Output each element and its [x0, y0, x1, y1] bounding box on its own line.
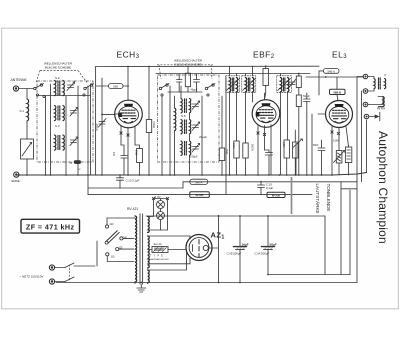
svg-text:S.5: S.5 [181, 114, 186, 118]
resistor R1 [146, 120, 151, 133]
wire R8 [294, 130, 296, 142]
wire rect heater bottom [147, 283, 149, 284]
terminal out 2 [363, 89, 368, 94]
wire antenna coil bottom [26, 121, 28, 139]
switch mains lower [55, 277, 74, 282]
switch S2a [159, 84, 169, 97]
junction dots EBF2 [229, 65, 297, 182]
svg-text:~ NETZ 220/110V: ~ NETZ 220/110V [20, 275, 44, 279]
coil L8 pair [181, 141, 191, 155]
svg-text:RV 404: RV 404 [377, 108, 386, 111]
wire HT bottom to AZ1 [148, 258, 190, 264]
wire lamp loop [148, 199, 168, 231]
capacitor C19 trimmer [289, 79, 296, 88]
switch S1a [34, 84, 46, 98]
wire col 102 [101, 78, 103, 175]
wire el3 lower link [341, 188, 357, 190]
wire antenna coil top [26, 89, 28, 100]
wire terminal4 drop [366, 120, 368, 172]
dial lamp 2 [157, 212, 165, 220]
voltage selector contacts [105, 225, 123, 256]
coil L4 pair [55, 135, 65, 150]
resistor R3 [219, 148, 224, 161]
wire C6 bottom [123, 158, 125, 175]
svg-text:ERDE: ERDE [12, 179, 20, 183]
transformer secondary rectifier heater winding [148, 270, 150, 283]
wire EL3 pins [331, 127, 333, 176]
wire R4 bottom [265, 86, 266, 100]
wire EL3 grid left [318, 113, 326, 115]
svg-text:Autophon Champion: Autophon Champion [376, 131, 390, 244]
capacitor C18 osc [177, 74, 183, 92]
svg-text:588·B: 588·B [333, 91, 341, 95]
terminal mains 2 [49, 279, 54, 284]
svg-text:W-531: W-531 [195, 193, 204, 197]
svg-text:0,1µF: 0,1µF [266, 186, 273, 190]
wire ECH3 top cap [127, 67, 129, 100]
svg-text:110: 110 [111, 256, 115, 259]
wire osc col 190 bottom [189, 156, 191, 176]
svg-text:Sen·4A: Sen·4A [154, 243, 162, 246]
wire C6 top [121, 145, 124, 156]
resistor R8 [293, 142, 298, 158]
wire right tall [356, 77, 358, 283]
capacitor C16 electrolytic [262, 216, 275, 275]
wire osc col 202 [201, 96, 203, 175]
x mark heater tap a [152, 197, 154, 199]
wire bus B [183, 181, 357, 183]
wire antenna lead [19, 88, 34, 90]
svg-text:220: 220 [110, 223, 115, 226]
svg-text:T Y P E: T Y P E [150, 255, 164, 258]
svg-text:100: 100 [112, 152, 115, 157]
wire R1 bottom [148, 133, 150, 176]
heater x marks EL3 [331, 131, 340, 135]
capacitor C6 [121, 156, 127, 159]
wire R11 bottom [338, 163, 340, 175]
wire pot track [291, 177, 293, 214]
wire R9 [298, 74, 300, 77]
switch link dashed [69, 265, 71, 282]
potentiometer R11 [334, 151, 345, 164]
svg-text:BLECHE SCHEIBE: BLECHE SCHEIBE [45, 66, 71, 70]
svg-text:ZF = 471 kHz: ZF = 471 kHz [26, 223, 75, 232]
transformer primary winding [135, 216, 137, 282]
wire primary ends [134, 218, 136, 284]
transformer secondary HT winding [148, 236, 150, 268]
wire osc inner top [168, 91, 202, 93]
wire L5 top [174, 96, 176, 108]
junction dots EL3 [298, 73, 333, 176]
terminal mains 1 [49, 265, 54, 270]
svg-text:RV-421: RV-421 [127, 207, 138, 211]
terminal ERDE [14, 172, 19, 177]
wire selector feed [96, 241, 98, 266]
wire right second vertical [361, 91, 363, 182]
wire grid box right [123, 85, 128, 87]
capacitor C20 block [70, 160, 82, 171]
wire osc col 190 link2 [189, 134, 191, 141]
capacitor C15 electrolytic [234, 216, 247, 283]
wire R3 top [221, 96, 223, 148]
tube ECH3 [115, 100, 143, 128]
wire loop vertical 2 [340, 182, 342, 275]
wire bus B step [88, 182, 183, 188]
capacitor C1 trimmer box [21, 139, 34, 159]
capacitor C17 osc [194, 74, 200, 92]
wire T4 bottom to t2 [368, 89, 374, 91]
junction dots ECH3 [101, 66, 150, 176]
svg-text:16µF: 16µF [242, 243, 249, 247]
svg-text:50µµF: 50µµF [95, 123, 99, 131]
label box 500 [109, 84, 124, 89]
wire fuse to AZ1 [168, 249, 186, 251]
terminal antenna [13, 86, 18, 91]
capacitor C2 trimmer [67, 82, 75, 91]
wire HT top to AZ1 [148, 236, 190, 239]
resistor R4 [263, 69, 268, 86]
switch mains upper [55, 263, 95, 268]
wire osc col 181 top [180, 86, 182, 99]
svg-text:W-530: W-530 [272, 193, 281, 197]
wire R5 bottom [236, 158, 238, 175]
wire box546 stub [319, 71, 324, 95]
terminal out 1 [363, 74, 368, 79]
wire R4 top [265, 66, 267, 68]
label box IF3 [267, 192, 285, 197]
wire R2 bottom [139, 163, 141, 176]
svg-text:0,1M: 0,1M [232, 143, 235, 148]
resistor R13 osc top [185, 73, 190, 87]
wire col 50 [50, 84, 52, 175]
wire HT center tap to fuse [148, 249, 152, 251]
capacitor C8 trimmer [192, 101, 200, 110]
x mark heater tap b [166, 197, 168, 199]
wire top bus B [156, 73, 310, 75]
svg-text:S.3: S.3 [55, 124, 60, 128]
wire ECH3 pin1 [120, 126, 122, 145]
junction grid [127, 85, 129, 87]
wire 588B stub up [336, 77, 338, 89]
resistor R9 [296, 76, 301, 88]
dashed pointer left switch group [36, 71, 40, 83]
speaker field coil [379, 97, 385, 107]
coil L5 osc left [175, 108, 176, 131]
wire osc col 162 [161, 96, 163, 175]
wire col 78 [77, 86, 79, 175]
tube EBF2 [252, 100, 280, 128]
label box IF1 [190, 179, 208, 184]
wire ground bus [16, 173, 367, 176]
transformer secondary heater winding [148, 217, 150, 233]
shield box oscillator (dash-dot) [158, 75, 220, 162]
label box 546A top [324, 69, 340, 74]
heater x marks ECH3 [120, 132, 129, 136]
wire col 90 [90, 86, 92, 175]
coil L1 antenna [27, 99, 29, 121]
svg-text:0,5M: 0,5M [282, 142, 285, 147]
wire R7 bottom [286, 158, 288, 175]
label box 588B [330, 89, 346, 94]
svg-text:33µµF: 33µµF [199, 135, 207, 139]
shield box left (dash-dot) [37, 81, 93, 162]
capacitor C9 trimmer [192, 122, 200, 131]
wire osc col 190 link [189, 113, 191, 120]
wire EBF2 pins [257, 125, 259, 176]
switch S1b [83, 84, 94, 97]
wire R13 top [187, 66, 189, 73]
wire ECH3 pin2 [127, 127, 129, 175]
resistor R2 [137, 149, 143, 163]
wire col 66 [65, 96, 67, 175]
label box IF2 [190, 192, 210, 198]
capacitor C3 trimmer [70, 108, 78, 117]
resistor R12 [345, 147, 351, 163]
potentiometer volume [293, 139, 302, 175]
svg-text:560: 560 [113, 84, 118, 88]
selector arm [105, 231, 119, 245]
svg-text:C.04 500µF: C.04 500µF [255, 251, 270, 255]
capacitor C13 [304, 93, 311, 175]
wire R1 top [148, 67, 150, 120]
wire field coil [368, 97, 383, 105]
junction ECH3 grid [101, 114, 103, 116]
wire bus C [88, 194, 312, 196]
wire switch common rail [38, 95, 91, 97]
svg-text:V: V [384, 73, 386, 77]
svg-text:50µµF: 50µµF [303, 95, 310, 98]
svg-text:LAUTSTÄRKE: LAUTSTÄRKE [315, 184, 321, 214]
wire col 312 [311, 114, 313, 175]
svg-text:TONBLENDE: TONBLENDE [326, 184, 331, 212]
wire top bus C [306, 76, 364, 78]
svg-text:S.2: S.2 [55, 76, 60, 80]
coil L3 pair [55, 106, 65, 121]
wire R13 bottom [187, 87, 189, 92]
junction dots left [26, 174, 89, 176]
svg-text:SCHAFFNER NR.64/4: SCHAFFNER NR.64/4 [147, 258, 170, 261]
IF transformer T1 [226, 76, 240, 93]
svg-text:0,05µF: 0,05µF [189, 155, 198, 159]
svg-text:40µµF: 40µµF [191, 89, 198, 92]
terminal out 4 [364, 114, 369, 119]
wire t1 stub [357, 76, 363, 78]
label box ZF = 471 kHz [21, 219, 80, 233]
wire osc col 170 [169, 86, 171, 175]
wire R12 bottom [348, 163, 350, 176]
wire B+ bus [146, 215, 325, 217]
switch S2b [205, 84, 215, 97]
wire R6 bottom [245, 158, 247, 175]
capacitor C7 0,1uF [117, 175, 124, 188]
wire L5 bottom [174, 131, 176, 175]
wire col 88 tall [87, 86, 89, 195]
wire R2 top [135, 145, 140, 149]
terminal out 3 [363, 102, 368, 107]
wire T-columns EBF2 [229, 92, 231, 175]
wire loop vertical 1 [324, 216, 326, 275]
pickup arrow [369, 112, 380, 120]
wire col 45 [45, 96, 47, 175]
svg-text:0,3M: 0,3M [333, 140, 338, 143]
junction dots osc [161, 174, 227, 176]
wire EBF2 top cap [264, 93, 266, 100]
wire AZ1 output [208, 216, 218, 248]
transformer core [140, 214, 143, 285]
wire bottom return [56, 282, 357, 284]
fuse box Schaffner [152, 247, 168, 253]
resistor R6 [243, 143, 248, 158]
wire loop vertical 3 [349, 190, 351, 275]
svg-text:50µF: 50µF [270, 243, 277, 247]
svg-text:0,3MΩ: 0,3MΩ [152, 121, 155, 128]
ground transformer core [137, 285, 146, 293]
svg-text:C.05 500µF: C.05 500µF [227, 251, 242, 255]
svg-text:546-A: 546-A [195, 180, 203, 184]
tube EL3 [326, 101, 353, 128]
output transformer T4 [374, 78, 386, 90]
svg-text:S.1: S.1 [20, 109, 25, 113]
svg-text:1MΩ: 1MΩ [135, 150, 138, 155]
resistor R10 [296, 95, 301, 107]
wire to grid box left [96, 85, 109, 87]
junction dots power [140, 215, 268, 283]
wire heater winding to AZ1 [148, 252, 187, 270]
IF transformer T2 [242, 76, 256, 93]
wire col 96 [95, 67, 97, 176]
IF transformer T3 [277, 76, 292, 93]
dial lamp 1 [157, 201, 165, 209]
wire C1 to ground [26, 159, 28, 175]
wire R3 bottom [221, 161, 223, 176]
wire 588B stub down [337, 95, 338, 101]
wire ECH3 pin3 [134, 126, 136, 145]
capacitor C14 tone [318, 140, 325, 175]
capacitor C10 trimmer [192, 144, 200, 153]
svg-text:2MΩ: 2MΩ [225, 149, 228, 154]
svg-text:50000: 50000 [251, 144, 254, 151]
wire loop bottom [268, 274, 350, 276]
capacitor C12 0,1uF [258, 182, 265, 195]
svg-text:ANTENNE: ANTENNE [11, 78, 28, 82]
resistor R5 [234, 141, 239, 158]
coil L6 pair [181, 99, 191, 113]
wire T4 top [368, 77, 374, 79]
wire taps to primary [107, 218, 134, 262]
wire top bus A [96, 65, 319, 67]
svg-text:5000: 5000 [313, 144, 319, 147]
wire col 226 [225, 77, 227, 195]
svg-text:546·A: 546·A [327, 69, 335, 73]
wire ECH3 grid left [102, 113, 115, 115]
capacitor C4 trimmer [70, 137, 78, 146]
resistor R7 [284, 140, 289, 158]
wire R10 bottom [298, 107, 300, 176]
dashed pointer osc switch group [157, 64, 213, 66]
coil L7 pair [181, 120, 191, 134]
tube AZ1 [186, 235, 212, 261]
wire R12 top [346, 127, 349, 148]
coil L2 pair [55, 81, 65, 96]
svg-text:C.13 0,1µF: C.13 0,1µF [126, 179, 140, 183]
capacitor C11 [265, 150, 273, 175]
heater x marks EBF2 [257, 132, 266, 136]
capacitor C5 trimmer 50pF [99, 119, 107, 128]
